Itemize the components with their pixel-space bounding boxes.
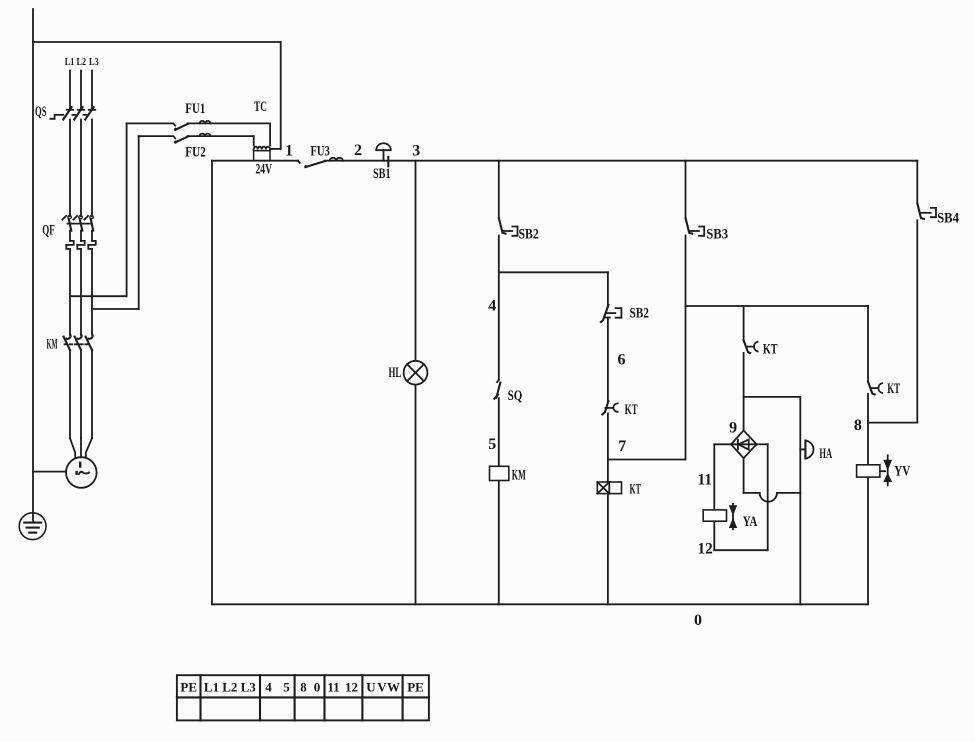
wire: motor frame earth link: [33, 471, 66, 473]
svg-text:4: 4: [265, 680, 272, 695]
transformer TC primary winding: [254, 147, 270, 150]
coil YV (solenoid valve): [857, 455, 893, 485]
coil KT (time relay): [597, 482, 621, 494]
wire: branch to KT column: [499, 271, 608, 273]
thermal element pole 3: [88, 241, 95, 249]
thermal element pole 2: [77, 241, 84, 249]
contactor KM pole 1: [64, 335, 71, 438]
coil KM: [490, 466, 509, 480]
breaker QF pole 1: [62, 216, 71, 241]
wire: phase L3 upper: [91, 71, 93, 110]
pushbutton SB3 (NO): [686, 218, 705, 236]
wire: HL branch: [415, 161, 417, 605]
wire: motor lead funnel: [70, 438, 92, 458]
wire: YA loop bottom: [714, 549, 767, 551]
svg-text:6: 6: [618, 352, 626, 369]
wire: left control rail: [211, 161, 213, 605]
svg-text:KT: KT: [887, 381, 900, 397]
svg-text:FU1: FU1: [185, 101, 205, 117]
limit switch SQ: [494, 380, 500, 399]
svg-text:FU2: FU2: [185, 144, 206, 160]
horn HA: [800, 441, 813, 459]
svg-text:4: 4: [488, 298, 496, 315]
svg-text:1: 1: [285, 143, 293, 160]
svg-text:QS: QS: [35, 104, 47, 120]
motor M: [66, 457, 97, 488]
svg-text:HL: HL: [389, 365, 402, 381]
wire: control top rail: [212, 160, 917, 162]
disconnector QS pole 2: [74, 107, 84, 119]
contactor KM pole 2: [75, 335, 82, 438]
wire: phase L2 lower: [80, 249, 82, 335]
svg-text:KT: KT: [763, 342, 778, 358]
fuse-switch FU3: [298, 158, 343, 168]
wire: YA loop right side: [757, 444, 768, 550]
wire: phase L2 upper: [80, 71, 82, 110]
wire: sub-rail under SB3: [686, 305, 869, 307]
coil YA (electromagnet): [703, 504, 737, 529]
thermal element pole 1: [66, 241, 73, 249]
svg-text:8: 8: [300, 680, 307, 695]
wire: KT column: [607, 272, 609, 604]
wire: top horizontal feed to TC primary: [33, 41, 281, 43]
svg-text:TC: TC: [254, 99, 267, 115]
KT delayed NC contact: [602, 401, 617, 414]
wire: middle KT branch: [743, 306, 745, 430]
svg-text:SB1: SB1: [373, 166, 391, 182]
wire: bottom rail 0: [212, 603, 868, 605]
svg-text:24V: 24V: [256, 162, 273, 178]
svg-text:SB2: SB2: [519, 227, 539, 243]
wire: node7 link to SB3 column: [608, 459, 686, 461]
wire: HA column: [799, 397, 801, 604]
transformer TC primary leads: [254, 123, 270, 145]
svg-text:11: 11: [698, 471, 713, 488]
svg-text:SB2: SB2: [630, 305, 649, 321]
svg-text:QF: QF: [42, 223, 55, 239]
svg-text:PE: PE: [180, 680, 197, 695]
wire: TC right vertical drop: [280, 42, 282, 149]
pushbutton SB4 (NO): [917, 204, 936, 219]
svg-text:3: 3: [412, 143, 420, 160]
svg-text:YV: YV: [894, 463, 910, 479]
svg-text:FU3: FU3: [311, 144, 330, 160]
wire: YA loop left side: [714, 444, 731, 550]
svg-text:L2: L2: [222, 680, 237, 695]
svg-text:V: V: [377, 680, 387, 695]
breaker QF pole 3: [84, 216, 93, 241]
lamp HL: [404, 361, 428, 385]
wire: SB3 branch: [685, 161, 687, 460]
svg-text:12: 12: [345, 680, 358, 695]
svg-text:2: 2: [354, 142, 362, 159]
svg-text:L2: L2: [77, 56, 87, 68]
QF linkage bar: [68, 223, 90, 225]
wire: SB2 start branch: [498, 161, 500, 605]
svg-text:5: 5: [488, 436, 496, 453]
wire: SB4 branch: [916, 161, 918, 423]
svg-text:L1: L1: [204, 680, 219, 695]
wire: right KT branch: [867, 306, 869, 604]
wire: phase L1 mid: [69, 120, 71, 217]
contactor KM pole 3: [86, 335, 93, 438]
wire: control tap 1 horizontal: [70, 295, 127, 297]
KM linkage dashes: [65, 343, 89, 345]
svg-text:0: 0: [694, 612, 702, 629]
svg-text:7: 7: [618, 438, 626, 455]
terminal table frame: [177, 675, 429, 720]
svg-text:8: 8: [854, 417, 862, 434]
wire: horizontal with hop to HA column: [744, 493, 801, 502]
wire: control tap 1 riser to FU1: [126, 123, 128, 296]
svg-text:SQ: SQ: [508, 388, 523, 404]
wire: diamond bottom drop: [743, 458, 745, 493]
svg-text:L3: L3: [89, 56, 99, 68]
wire: phase L1 lower: [69, 249, 71, 335]
svg-text:W: W: [387, 680, 400, 695]
wire: node8 link from SB4: [868, 422, 917, 424]
svg-text:0: 0: [314, 680, 321, 695]
ground symbol: [19, 513, 46, 540]
QS operating linkage: [50, 115, 86, 119]
svg-text:KT: KT: [630, 481, 641, 497]
svg-text:SB3: SB3: [706, 227, 728, 243]
svg-text:PE: PE: [407, 680, 424, 695]
rectifier diamond with diode: [731, 430, 757, 458]
pushbutton SB1 (mushroom stop): [376, 143, 391, 166]
svg-text:9: 9: [729, 419, 737, 436]
svg-text:U: U: [366, 680, 376, 695]
wire: phase L3 lower: [91, 249, 93, 335]
fuse-switch FU2: [139, 134, 254, 144]
fuse-switch FU1: [127, 121, 271, 131]
wire: KT to HA column link: [744, 396, 801, 398]
wire: TC link segment: [270, 148, 281, 150]
svg-text:KT: KT: [625, 402, 638, 418]
pushbutton SB2 (NO start): [499, 218, 518, 236]
svg-text:KM: KM: [47, 337, 58, 353]
wire: phase L2 mid: [80, 120, 82, 217]
svg-text:11: 11: [327, 680, 339, 695]
wire: control tap 2 riser to FU2: [138, 136, 140, 309]
breaker QF pole 2: [73, 216, 82, 241]
transformer TC secondary winding: [254, 151, 270, 161]
svg-text:KM: KM: [512, 468, 526, 484]
wire: incoming supply stub at top-left: [32, 9, 34, 523]
svg-text:L1: L1: [65, 56, 75, 68]
svg-text:SB4: SB4: [937, 211, 959, 227]
KT delayed NO contact (middle): [744, 340, 758, 353]
svg-text:L3: L3: [241, 680, 257, 695]
disconnector QS pole 3: [85, 107, 95, 119]
disconnector QS pole 1: [63, 107, 73, 119]
svg-text:HA: HA: [819, 446, 832, 462]
wire: control tap 2 horizontal: [92, 308, 139, 310]
wire: phase L1 upper: [69, 71, 71, 110]
svg-text:YA: YA: [743, 514, 758, 530]
pushbutton SB2 (NC): [601, 305, 622, 322]
KT delayed NO contact (right): [868, 382, 882, 395]
wire: phase L3 mid: [91, 120, 93, 217]
svg-text:12: 12: [698, 541, 713, 558]
svg-text:5: 5: [283, 680, 290, 695]
